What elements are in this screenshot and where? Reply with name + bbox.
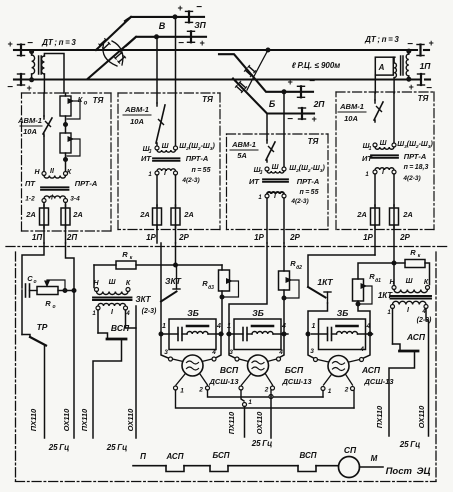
svg-text:А: А [378, 63, 385, 72]
dash-dot left border [15, 252, 17, 482]
svg-text:+: + [287, 77, 293, 87]
wire - ZB2 to relay BSP terminals [229, 334, 236, 359]
svg-text:(2-3): (2-3) [417, 317, 432, 324]
contact ASP (front) [166, 466, 184, 472]
fuse 2A box2 right [171, 208, 180, 225]
svg-text:−: − [407, 39, 413, 50]
svg-text:ОХ110: ОХ110 [255, 411, 264, 434]
wire - box3 outputs [266, 198, 268, 243]
svg-text:1П: 1П [32, 233, 42, 242]
wire - left turnout diagonal A [96, 17, 131, 50]
svg-text:ДТ ; п = 3: ДТ ; п = 3 [41, 38, 76, 47]
svg-text:2Р: 2Р [399, 233, 410, 242]
svg-text:−: − [196, 2, 202, 13]
wire - TR coil branch down [21, 291, 23, 335]
Rd1 slider arm [359, 286, 372, 304]
resistor Rk left [116, 261, 136, 269]
svg-text:ВСП: ВСП [299, 451, 316, 460]
svg-text:−: − [178, 38, 184, 49]
svg-text:П: П [140, 452, 146, 461]
svg-text:д3: д3 [208, 285, 214, 291]
insulated joint 2P upper [300, 86, 302, 97]
DT right core [400, 56, 402, 75]
contact TR (transmitter contact) [22, 335, 30, 338]
ZB internal capacitor [162, 333, 178, 335]
Rd2 slider arm [285, 280, 299, 298]
wire - Rk right bus [394, 262, 405, 264]
wire - ZKT transformer terminal 1 down [97, 310, 99, 333]
svg-text:ПРТ-А: ПРТ-А [404, 152, 427, 161]
svg-text:БСП: БСП [285, 365, 304, 375]
wire - bottom contact line with front contacts [133, 465, 166, 467]
node 2R box4 junction [392, 261, 396, 265]
svg-text:2: 2 [198, 387, 203, 394]
svg-text:2П: 2П [313, 99, 326, 109]
node on 2P upper line [282, 90, 286, 94]
contact VSP transmitter [98, 333, 108, 338]
svg-text:ТЯ: ТЯ [202, 95, 213, 104]
ZB internal capacitor [227, 333, 243, 335]
dash-dot right border [435, 252, 437, 482]
hatch marks on diagonal B [115, 53, 121, 58]
svg-text:(2-3): (2-3) [142, 308, 157, 315]
svg-text:ПРТ-А: ПРТ-А [186, 154, 209, 163]
svg-text:ДСШ-13: ДСШ-13 [208, 377, 239, 386]
svg-text:Ш: Ш [380, 140, 387, 147]
svg-text:п = 55: п = 55 [300, 189, 319, 196]
svg-text:ИТ: ИТ [141, 154, 152, 163]
wire - ZB1 to relay VSP terminals [161, 334, 170, 359]
wire segment [228, 465, 298, 467]
ZB internal inductor [247, 333, 252, 335]
svg-text:ПРТ-А: ПРТ-А [75, 179, 98, 188]
node 2R junction on Rk bus [174, 263, 178, 267]
resistor Rk right [405, 260, 425, 268]
relay BSP coil (DSSh-13) [248, 355, 269, 376]
svg-text:1: 1 [227, 323, 231, 330]
wire - box2 outputs [156, 225, 158, 243]
wire - 2R box2 down to node [175, 243, 177, 265]
svg-text:1П: 1П [420, 61, 432, 71]
arc - left turnout curve 1 [103, 44, 117, 66]
insulated joint right end lower rail [420, 74, 422, 85]
wire - 1KT transformer terminal 1 down [392, 309, 394, 345]
circuit breaker AVM-1 10A box1 [43, 116, 45, 119]
svg-text:1: 1 [248, 399, 252, 406]
wire - Rd2 down to ZB2 terminal 4 [283, 290, 285, 334]
svg-text:ЗКТ: ЗКТ [135, 295, 151, 304]
svg-text:4: 4 [359, 346, 364, 353]
relay BSP terminal 1 [239, 386, 243, 390]
dash-dot enclosure TYa box 3 [227, 133, 329, 135]
svg-text:1Р: 1Р [254, 233, 264, 242]
contact VSP (front) [298, 466, 316, 472]
svg-text:ПТ: ПТ [25, 179, 36, 188]
svg-text:2А: 2А [402, 210, 413, 219]
relay VSP coil (DSSh-13) [182, 355, 203, 376]
svg-text:ЗКТ: ЗКТ [165, 276, 182, 286]
circuit breaker AVM-1 10A box4 [374, 100, 376, 103]
wire - OH110 conductor mid-left pair [135, 306, 137, 438]
node on main rail at turnout [266, 48, 270, 52]
svg-text:1: 1 [180, 388, 184, 395]
DT left core [38, 56, 40, 74]
ZB internal capacitor [312, 333, 328, 335]
svg-text:ДСШ-13: ДСШ-13 [281, 377, 312, 386]
svg-text:I: I [274, 193, 277, 200]
wire - ZKT contact down to ZB1 [160, 302, 162, 335]
svg-text:2А: 2А [25, 210, 36, 219]
svg-text:2Р: 2Р [178, 233, 189, 242]
svg-text:ЗБ: ЗБ [337, 308, 348, 318]
wire - relay ASP to bottom terminals [324, 375, 332, 385]
svg-text:25 Гц: 25 Гц [48, 443, 70, 452]
svg-text:−: − [27, 38, 33, 49]
svg-text:М: М [371, 454, 378, 463]
wire - box1 left branch to transformer [43, 136, 45, 171]
insulated joint 3P lower [190, 31, 192, 42]
wire - right turnout diagonal 1 to 2P upper [219, 54, 299, 92]
wire - Rdz down to ZB1 terminal 4 [221, 291, 223, 334]
svg-text:ПРТ-А: ПРТ-А [297, 177, 320, 186]
svg-text:ЗП: ЗП [194, 20, 206, 30]
arc - left turnout curve 2 [112, 41, 123, 65]
wire - terminals to relay BSP coil [239, 359, 249, 362]
svg-text:К: К [424, 279, 429, 286]
svg-text:2Р: 2Р [289, 233, 300, 242]
wire - siding track V upper line (3P section) [125, 17, 187, 21]
insulated joint left end upper rail [20, 45, 22, 56]
svg-text:+: + [428, 38, 434, 48]
svg-text:1: 1 [312, 323, 316, 330]
svg-text:Ш2​(Ш2​-Ш3​): Ш2​(Ш2​-Ш3​) [179, 143, 215, 152]
wire - OH110 conductor left pair [73, 291, 75, 439]
svg-text:ТЯ: ТЯ [308, 137, 319, 146]
svg-text:25 Гц: 25 Гц [251, 439, 273, 448]
circuit breaker AVM-1 5A box3 [266, 140, 268, 143]
svg-text:5А: 5А [237, 151, 247, 160]
svg-text:АВМ-1: АВМ-1 [339, 102, 364, 111]
svg-text:к: к [418, 253, 421, 259]
Ro slider arrow [47, 280, 65, 290]
svg-text:д1: д1 [375, 278, 381, 284]
ZB terminal nodes [159, 332, 163, 336]
svg-text:ДТ ; п = 3: ДТ ; п = 3 [364, 35, 399, 44]
svg-text:АСП: АСП [166, 452, 184, 461]
wire - bus to Rd1 [358, 263, 394, 279]
svg-text:4(2-3): 4(2-3) [290, 198, 308, 205]
wire - 2P cable to TR network [66, 243, 75, 290]
wire - box2 transformer to fuses [156, 175, 158, 206]
svg-text:ОХ110: ОХ110 [417, 405, 426, 428]
wire - box4 feeds from DT right [374, 93, 376, 100]
fuse 2A box1 left [40, 208, 49, 225]
svg-text:АСП: АСП [361, 365, 381, 375]
svg-text:Ш: Ш [109, 279, 116, 286]
ZB internal inductor [332, 333, 337, 335]
node on 3P upper line [173, 15, 177, 19]
insulated joint 3P upper [188, 11, 190, 22]
svg-text:Ш: Ш [162, 143, 169, 150]
svg-text:4: 4 [278, 349, 283, 356]
Rdz slider arm [223, 281, 239, 297]
wire - box2 feeds from siding track [156, 37, 158, 103]
svg-text:Ш: Ш [272, 164, 279, 171]
relay ASP coil (DSSh-13) [328, 356, 349, 377]
svg-text:I: I [111, 309, 114, 316]
dash-dot enclosure TYa box 4 [336, 91, 434, 93]
svg-text:2: 2 [344, 387, 349, 394]
wire - box3 feeds from 2P branch [266, 114, 268, 141]
wire - relay VSP to bottom terminals [176, 374, 185, 385]
svg-text:1: 1 [328, 388, 332, 395]
svg-text:10А: 10А [23, 127, 37, 136]
wire - 1R box3 to BSP branch [229, 243, 267, 334]
svg-text:ПХ110: ПХ110 [375, 405, 384, 428]
dash-dot bottom border [16, 481, 437, 483]
resistor Ro (adjustable) [37, 287, 58, 295]
DT left main winding [31, 50, 33, 55]
wire - BSP terminal 1 to PH110 node [241, 390, 244, 401]
circuit breaker AVM-1 10A box2 [156, 103, 158, 106]
hatch marks on right diagonal 2 [240, 82, 246, 87]
contact ASP transmitter [393, 344, 401, 350]
svg-text:I: I [382, 169, 385, 176]
svg-text:ДСШ-13: ДСШ-13 [363, 377, 394, 386]
wire - Ro to 2P branch [58, 290, 74, 292]
svg-text:+: + [26, 83, 32, 93]
wire - relay BSP to bottom terminals [242, 374, 251, 385]
wire - box A / secondary to TYa box 4 [393, 57, 395, 63]
svg-text:−: − [7, 82, 13, 93]
svg-text:к: к [130, 255, 133, 261]
svg-text:I: I [407, 307, 410, 314]
svg-text:ВСП: ВСП [220, 365, 239, 375]
wire - DT left secondary to box terminals [44, 54, 64, 94]
dash-dot enclosure TYa box 2 [118, 92, 220, 94]
hatch marks on right diagonal 1 [249, 66, 255, 71]
svg-text:ОХ110: ОХ110 [62, 408, 71, 431]
svg-text:II: II [50, 168, 55, 175]
svg-text:В: В [159, 21, 166, 31]
DT right main winding [408, 50, 410, 54]
ZB internal core bar [187, 325, 208, 328]
svg-text:R: R [45, 299, 51, 308]
relay ASP terminal 1 [321, 387, 325, 391]
svg-text:I: I [164, 170, 167, 177]
wire - lower rail of main track [14, 78, 19, 80]
wire - Rk bus [94, 264, 116, 266]
svg-text:ПХ110: ПХ110 [29, 408, 38, 431]
resistor Ko lower (adjustable) [60, 133, 71, 153]
insulated joint right end upper rail [419, 45, 421, 56]
svg-text:д2: д2 [296, 265, 302, 271]
insulated joint 2P lower [301, 108, 303, 119]
ZB internal core bar [337, 325, 358, 328]
wire - ZKT transformer terminal 4 down to OH110 [126, 310, 137, 328]
svg-text:1: 1 [92, 311, 96, 317]
wire - 1P cable to TR network [22, 243, 44, 288]
svg-text:ПХ110: ПХ110 [227, 411, 236, 434]
svg-text:+: + [311, 114, 317, 124]
svg-text:3: 3 [229, 349, 233, 356]
fuse 2A box1 right [61, 208, 70, 225]
insulated joint left end lower rail [20, 74, 22, 85]
svg-text:Пост ЭЦ: Пост ЭЦ [386, 466, 431, 477]
svg-text:2: 2 [264, 387, 269, 394]
svg-text:Ш2​(Ш2​-Ш3​): Ш2​(Ш2​-Ш3​) [289, 165, 325, 174]
DT left secondary winding [42, 56, 45, 74]
svg-text:ЗБ: ЗБ [187, 308, 198, 318]
node on 3P lower line [155, 35, 159, 39]
wire - SP coil to M [360, 466, 384, 468]
relay VSP terminal 1 [174, 386, 178, 390]
svg-text:п = 18,3: п = 18,3 [404, 164, 429, 171]
svg-text:1: 1 [148, 172, 152, 178]
svg-text:3: 3 [164, 349, 168, 356]
svg-text:АВМ-1: АВМ-1 [231, 140, 256, 149]
svg-text:Ш3​(Ш2​-Ш3​): Ш3​(Ш2​-Ш3​) [397, 141, 433, 150]
wire - Ko to transformer K terminal [65, 153, 67, 171]
wire - box1 outputs [43, 225, 45, 243]
svg-text:СП: СП [344, 445, 357, 455]
DT right secondary winding [394, 63, 396, 78]
wire - Rk right to K terminal [425, 263, 430, 285]
svg-text:−: − [309, 76, 315, 87]
svg-text:4: 4 [366, 323, 371, 330]
svg-text:ТР: ТР [37, 322, 48, 332]
svg-text:R: R [410, 248, 416, 257]
svg-text:АВМ-1: АВМ-1 [124, 105, 149, 114]
ZB terminal nodes [227, 332, 231, 336]
svg-text:Н: Н [93, 280, 99, 287]
svg-text:ИТ: ИТ [362, 154, 373, 163]
wire - box4 transformer to fuses [374, 174, 376, 206]
wire - terminals to relay coil [173, 359, 184, 362]
svg-text:+: + [177, 3, 183, 13]
wire - BSP terminal 2 to OH110 [270, 390, 272, 397]
dash-dot separator cable boundary [6, 246, 447, 248]
svg-text:ТЯ: ТЯ [93, 96, 104, 105]
relay ASP terminal 2 [351, 387, 355, 391]
svg-text:2А: 2А [139, 210, 150, 219]
svg-text:4: 4 [281, 323, 286, 330]
svg-text:2А: 2А [356, 210, 367, 219]
svg-text:10А: 10А [344, 114, 358, 123]
wire - box4 outputs [374, 225, 376, 255]
hatch marks on diagonal A [100, 40, 106, 45]
svg-text:+: + [199, 38, 205, 48]
svg-text:4: 4 [211, 349, 216, 356]
svg-text:1: 1 [387, 310, 391, 316]
svg-text:1: 1 [162, 323, 166, 330]
svg-text:25 Гц: 25 Гц [399, 440, 421, 449]
svg-text:п = 55: п = 55 [192, 167, 211, 174]
svg-text:БСП: БСП [212, 451, 229, 460]
arc - right turnout curve [247, 50, 268, 90]
wire - upper rail of main track [14, 49, 19, 51]
wire - siding track V lower line [126, 37, 189, 46]
svg-text:3-4: 3-4 [70, 196, 80, 203]
node PH110 junction [243, 403, 247, 407]
svg-text:3: 3 [260, 170, 263, 176]
svg-text:ℓ Р.Ц. ≤ 900м: ℓ Р.Ц. ≤ 900м [292, 61, 341, 70]
svg-text:1-2: 1-2 [25, 196, 35, 203]
wire - PH110 conductor left pair [44, 346, 46, 439]
wire - Rd1 down to ZB3 terminal 4 [358, 301, 370, 333]
svg-text:1Р: 1Р [363, 233, 373, 242]
svg-text:1КТ: 1КТ [317, 277, 333, 287]
svg-text:3: 3 [310, 348, 314, 355]
svg-text:ЗБ: ЗБ [252, 308, 263, 318]
svg-text:1: 1 [365, 172, 369, 178]
ZB terminal nodes [306, 332, 310, 336]
svg-text:4: 4 [216, 323, 221, 330]
svg-text:25 Гц: 25 Гц [106, 443, 128, 452]
ZB internal core bar [252, 325, 273, 328]
Ko upper slider arm [67, 101, 80, 119]
arrester box A [375, 57, 393, 75]
wire - left turnout diagonal B [88, 37, 136, 79]
dash-dot enclosure TYa box 1 [22, 92, 112, 94]
svg-text:+: + [408, 82, 414, 92]
wire - 2R box4 to N terminal [393, 263, 395, 285]
wire - 1KT contact to ZB3 [308, 303, 328, 333]
svg-text:2П: 2П [66, 233, 77, 242]
svg-text:АВМ-1: АВМ-1 [17, 116, 42, 125]
ZB internal inductor [182, 333, 187, 335]
svg-text:о: о [84, 101, 88, 107]
svg-text:1Р: 1Р [146, 233, 156, 242]
wire - Ko chain [65, 93, 67, 96]
svg-text:С: С [27, 274, 33, 283]
svg-text:ТЯ: ТЯ [418, 94, 429, 103]
svg-text:1: 1 [258, 195, 262, 201]
wire - lower relay bus [176, 390, 355, 408]
contact BSP (front) [210, 466, 228, 472]
svg-text:о: о [52, 304, 55, 310]
svg-text:4(2-3): 4(2-3) [181, 177, 199, 184]
wire - bus to transformer N terminal [93, 265, 95, 288]
wire segment [184, 465, 210, 467]
svg-text:ИТ: ИТ [249, 177, 260, 186]
wire - PH110 conductor middle [244, 407, 246, 438]
fuse 2A box4 left [371, 208, 380, 225]
svg-text:Ш: Ш [406, 278, 413, 285]
Ko lower slider arm [67, 139, 80, 156]
svg-text:R: R [122, 250, 128, 259]
svg-text:1: 1 [369, 146, 372, 152]
wire - box1 transformer to fuses [43, 203, 45, 207]
svg-text:+: + [7, 39, 13, 49]
svg-text:10А: 10А [130, 117, 144, 126]
wire - upper relay bus [208, 390, 324, 397]
svg-text:Б: Б [269, 99, 276, 109]
relay BSP terminal 2 [271, 386, 275, 390]
svg-text:4(2-3): 4(2-3) [402, 175, 420, 182]
wire - 1KT transformer terminal 4 down to OH110 [426, 309, 429, 437]
wire - 2R box3 down to Rd2 [283, 243, 285, 271]
relay VSP terminal 2 [206, 386, 210, 390]
svg-text:АСП: АСП [406, 332, 426, 342]
node BSP2 on upper bus [269, 395, 273, 399]
svg-text:К: К [126, 280, 131, 287]
wire - 1R box4 to 1KT contact [308, 255, 375, 287]
fuse 2A box4 right [390, 208, 399, 225]
resistor Ko upper (adjustable) [60, 96, 71, 116]
fuse 2A box2 left [153, 208, 162, 225]
svg-text:ОХ110: ОХ110 [126, 408, 135, 431]
